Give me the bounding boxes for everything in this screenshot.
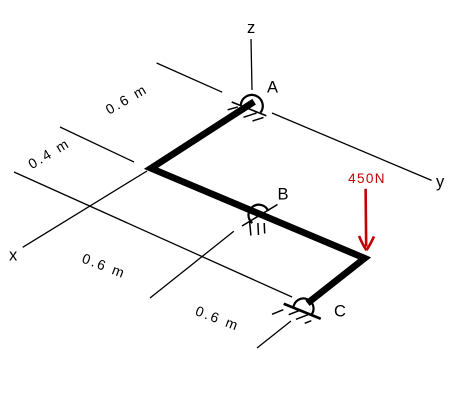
svg-text:A: A — [267, 79, 278, 97]
bearing B ground line — [242, 205, 278, 227]
bearing C hatches — [272, 310, 283, 315]
bearing C white fill — [293, 298, 313, 314]
bearing B hatches — [250, 222, 251, 236]
bearing B white fill — [248, 205, 268, 223]
svg-text:C: C — [334, 303, 346, 321]
z-axis — [251, 39, 252, 90]
dimension extension line through C (parallel to y) — [14, 172, 292, 297]
bearing C ground line — [284, 304, 321, 319]
bearing C arc — [293, 298, 313, 314]
bearing B arc — [248, 205, 268, 223]
svg-text:z: z — [247, 19, 255, 37]
svg-text:450N: 450N — [348, 171, 386, 186]
force arrow 450N head — [359, 236, 374, 250]
dimension extension line below C (parallel to x) — [257, 321, 291, 348]
svg-text:x: x — [9, 247, 18, 265]
y-axis (segment right of A) — [272, 113, 432, 180]
shaft (thick zigzag member A-B-C) — [151, 102, 365, 304]
svg-text:y: y — [436, 173, 445, 191]
bearing A hatches — [228, 107, 238, 110]
svg-text:B: B — [278, 186, 289, 204]
bearing A ground line — [232, 102, 267, 116]
dimension extension line through B (parallel to x) — [150, 231, 234, 298]
bearing A white fill — [241, 95, 263, 113]
dimension extension line through first corner (0.4 m upper line) — [60, 127, 134, 162]
y-axis (segment left of A) — [157, 63, 223, 92]
x-axis — [23, 171, 147, 247]
bearing A arc — [241, 95, 263, 113]
force arrow 450N shaft — [364, 189, 367, 247]
